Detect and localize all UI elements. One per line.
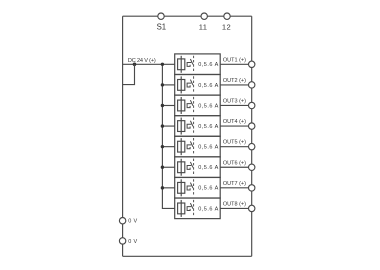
svg-text:0,5.6 A: 0,5.6 A [198, 62, 219, 68]
junction dot channel 4 branch [161, 124, 164, 127]
wire OUT2 [220, 84, 252, 86]
wire step from DC feed junction to left bus [123, 64, 135, 84]
wire bottom bus [123, 255, 252, 257]
svg-text:OUT2 (+): OUT2 (+) [223, 78, 246, 84]
junction dot channel 5 branch [161, 145, 164, 148]
svg-text:0,5.6 A: 0,5.6 A [198, 83, 219, 89]
mechanical linkage channel 8 (dashed) [193, 200, 195, 217]
mechanical linkage channel 4 (dashed) [193, 117, 195, 134]
wire right bus (OUT side) [251, 16, 253, 256]
fuse channel 2 [178, 76, 185, 93]
terminal 12 [222, 13, 231, 32]
breaker contact channel 4 [187, 121, 193, 128]
terminal OUT8 (+) [223, 201, 255, 211]
breaker contact channel 3 [187, 100, 193, 107]
terminal S1 [157, 13, 166, 32]
fuse channel 5 [178, 138, 185, 155]
fuse channel 8 [178, 200, 185, 217]
mechanical linkage channel 3 (dashed) [193, 97, 195, 114]
svg-text:OUT6 (+): OUT6 (+) [223, 160, 246, 166]
fuse channel 3 [178, 97, 185, 114]
breaker contact channel 8 [187, 203, 193, 210]
junction dot channel 7 branch [161, 186, 164, 189]
wire branch to channel 6 [162, 166, 174, 168]
breaker contact channel 1 [187, 59, 193, 66]
wire OUT6 [220, 166, 252, 168]
wire OUT8 [220, 207, 252, 209]
channel 4 box [175, 116, 221, 137]
svg-text:0,5.6 A: 0,5.6 A [198, 186, 219, 192]
svg-text:11: 11 [199, 23, 208, 32]
wire branch to channel 7 [162, 187, 174, 189]
channel 8 box [175, 198, 221, 219]
svg-text:OUT7 (+): OUT7 (+) [223, 181, 246, 187]
terminal 0 V #2 [119, 238, 137, 245]
wire branch to channel 5 [162, 146, 174, 148]
terminal 0 V #1 [119, 218, 137, 225]
svg-text:0,5.6 A: 0,5.6 A [198, 103, 219, 109]
wire OUT3 [220, 104, 252, 106]
wire internal (+) distribution bus [162, 64, 174, 208]
mechanical linkage channel 2 (dashed) [193, 76, 195, 93]
terminal OUT1 (+) [223, 57, 255, 67]
svg-text:OUT3 (+): OUT3 (+) [223, 98, 246, 104]
svg-text:0,5.6 A: 0,5.6 A [198, 124, 219, 130]
svg-text:S1: S1 [157, 23, 166, 32]
channel 7 box [175, 177, 221, 198]
terminal OUT7 (+) [223, 181, 255, 191]
svg-text:0,5.6 A: 0,5.6 A [198, 145, 219, 151]
svg-text:0,5.6 A: 0,5.6 A [198, 165, 219, 171]
fuse channel 4 [178, 118, 185, 135]
junction dot channel 6 branch [161, 166, 164, 169]
svg-text:DC 24 V (+): DC 24 V (+) [128, 58, 156, 64]
svg-text:12: 12 [222, 23, 231, 32]
breaker contact channel 2 [187, 80, 193, 87]
terminal OUT2 (+) [223, 78, 255, 88]
mechanical linkage channel 1 (dashed) [193, 56, 195, 73]
svg-text:OUT4 (+): OUT4 (+) [223, 119, 246, 125]
terminal 11 [199, 13, 208, 32]
channel 2 box [175, 74, 221, 95]
wire DC 24 V (+) feed [123, 63, 175, 65]
terminal OUT5 (+) [223, 140, 255, 150]
wire branch to channel 4 [162, 125, 174, 127]
wire OUT1 [220, 63, 252, 65]
terminal OUT6 (+) [223, 160, 255, 170]
svg-text:0,5.6 A: 0,5.6 A [198, 206, 219, 212]
fuse channel 7 [178, 179, 185, 196]
wire branch to channel 2 [162, 84, 174, 86]
mechanical linkage channel 7 (dashed) [193, 179, 195, 196]
junction dot channel 1 branch [161, 63, 164, 66]
breaker contact channel 7 [187, 183, 193, 190]
svg-text:0 V: 0 V [128, 239, 137, 245]
svg-text:0 V: 0 V [128, 219, 137, 225]
channel 3 box [175, 95, 221, 116]
wire OUT5 [220, 146, 252, 148]
breaker contact channel 5 [187, 141, 193, 148]
wire OUT4 [220, 125, 252, 127]
fuse channel 1 [178, 56, 185, 73]
wire top bus (S1-11-12 line) [123, 15, 252, 17]
fuse channel 6 [178, 159, 185, 176]
mechanical linkage channel 5 (dashed) [193, 138, 195, 155]
junction dot channel 3 branch [161, 104, 164, 107]
svg-text:OUT1 (+): OUT1 (+) [223, 57, 246, 63]
wire left bus (DC 24 V / 0 V side) [122, 16, 124, 256]
channel 5 box [175, 136, 221, 157]
wire branch to channel 3 [162, 104, 174, 106]
svg-text:OUT5 (+): OUT5 (+) [223, 140, 246, 146]
channel 1 box [175, 54, 221, 75]
terminal OUT4 (+) [223, 119, 255, 129]
breaker contact channel 6 [187, 162, 193, 169]
junction dot on DC feed [133, 63, 137, 67]
junction dot channel 2 branch [161, 83, 164, 86]
wire OUT7 [220, 187, 252, 189]
svg-text:OUT8 (+): OUT8 (+) [223, 201, 246, 207]
channel 6 box [175, 157, 221, 178]
mechanical linkage channel 6 (dashed) [193, 159, 195, 176]
terminal OUT3 (+) [223, 98, 255, 108]
